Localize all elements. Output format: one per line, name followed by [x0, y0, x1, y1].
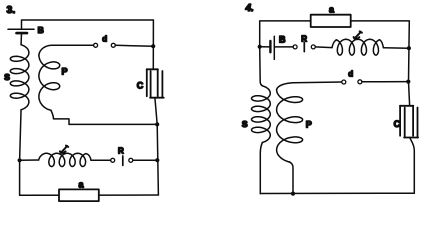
svg-text:4.: 4. — [245, 3, 254, 14]
svg-text:a: a — [329, 4, 335, 14]
wire: coil S bottom to bottom-left corner (fig.4) — [260, 143, 262, 194]
capacitor C2 top bar (fig.4) — [400, 105, 413, 107]
wire: top rail from battery top to top-right corner — [22, 20, 154, 29]
wire: top rail left segment (fig.4) — [260, 21, 311, 47]
inductor P1 (primary coil, fig.3) — [39, 55, 60, 110]
wire: switch R to right rail — [133, 159, 158, 161]
switch R left contact (fig.3) — [111, 158, 115, 162]
resistor box a (fig.4) — [311, 15, 351, 27]
wire: bottom rail (fig.4) — [260, 192, 414, 194]
wire: left rail junction to battery — [260, 46, 271, 48]
capacitor C2 top-left plate — [399, 106, 401, 136]
node: junction of battery branch and left rail — [258, 45, 262, 49]
svg-text:d: d — [102, 34, 107, 43]
node: junction of P-bottom wire and right rail — [155, 122, 159, 126]
capacitor C1 bottom-left plate — [150, 71, 152, 98]
wire: bottom rail (fig.3) — [20, 194, 159, 196]
svg-text:P: P — [62, 67, 68, 77]
label L script (fig.3) — [60, 146, 68, 153]
inductor S1 (secondary coil, fig.3) — [10, 45, 29, 110]
svg-text:S: S — [242, 119, 248, 129]
node: junction of L branch and right rail (fig.4) — [407, 46, 411, 50]
inductor L2 (fig.4) — [332, 39, 383, 55]
wire: switch d left lead — [52, 44, 94, 46]
wire: coil S bottom to bottom-left corner (left rail) — [20, 110, 21, 196]
inductor L1 (fig.3) — [39, 153, 91, 166]
wire: switch d line from P top curve (fig.4) — [293, 81, 342, 84]
switch R blade (fig.4) — [303, 42, 305, 51]
svg-text:R: R — [118, 147, 124, 156]
capacitor C1 top bar — [147, 68, 158, 70]
wire: capacitor C1 to lower right rail — [155, 98, 157, 125]
svg-text:C: C — [137, 80, 144, 90]
switch R blade (fig.3) — [122, 156, 124, 165]
wire: capacitor C2 to bottom-right corner (fig.4) — [410, 138, 415, 194]
wire: right rail lower — [157, 124, 158, 195]
wire: switch d to right rail (fig.4) — [362, 81, 408, 83]
resistor box a (fig.3) — [59, 189, 99, 201]
svg-text:S: S — [4, 72, 10, 82]
label L script (fig.4) — [354, 31, 362, 38]
node: junction of P bottom and bottom rail (fig.4) — [291, 192, 295, 196]
node: junction of L-R branch and right rail — [155, 158, 159, 162]
wire: left rail to inductor L — [20, 159, 39, 161]
switch R right contact (fig.3) — [129, 158, 133, 162]
wire: switch d right lead to right rail — [115, 44, 153, 47]
battery B1 short plate — [17, 32, 28, 35]
switch d right contact (fig.4) — [358, 80, 362, 84]
capacitor C1 top-right plate — [157, 69, 159, 96]
battery B2 long plate — [273, 36, 275, 59]
switch d right contact (fig.3) — [111, 43, 115, 47]
switch d left contact (fig.3) — [94, 43, 98, 47]
capacitor C2 top-right plate — [412, 106, 414, 136]
svg-text:P: P — [306, 120, 312, 130]
svg-text:C: C — [394, 119, 401, 129]
svg-text:3.: 3. — [7, 4, 16, 16]
wire: top rail right segment to top-right corner (fig.4) — [351, 21, 410, 105]
switch d left contact (fig.4) — [342, 80, 346, 84]
inductor S2 (secondary coil, fig.4) — [252, 86, 271, 143]
switch R right contact (fig.4) — [311, 45, 315, 49]
capacitor C2 bottom-right plate — [417, 108, 419, 138]
capacitor C1 top-left plate — [146, 69, 148, 96]
svg-text:d: d — [348, 69, 353, 78]
node: junction of L-R branch and left rail — [18, 158, 22, 162]
switch R left contact (fig.4) — [293, 45, 297, 49]
wire: right rail upper (top corner to capacitor) — [152, 20, 154, 69]
wire: coil P bottom step to right rail — [51, 110, 157, 124]
capacitor C1 bottom-right plate — [161, 71, 163, 98]
wire: switch d feed from top of coil P (fig.4) — [277, 83, 293, 90]
wire: switch d feed from top of coil P — [39, 45, 52, 55]
battery B1 long plate — [8, 28, 34, 30]
wire: switch R to inductor L (fig.4) — [315, 46, 332, 49]
wire: battery to switch R (fig.4) — [274, 46, 293, 48]
capacitor C2 bottom-left plate — [404, 108, 406, 138]
svg-text:a: a — [79, 180, 85, 190]
svg-text:B: B — [279, 34, 286, 44]
wire: left rail to coil S top (fig.4) — [260, 47, 263, 86]
capacitor C1 bottom bar — [150, 97, 164, 99]
capacitor C2 bottom bar (fig.4) — [404, 137, 418, 139]
inductor P2 (primary coil, fig.4) — [277, 90, 303, 163]
node: junction of d branch and right rail (fig.4) — [406, 80, 410, 84]
wire: coil P bottom to bottom rail (fig.4) — [290, 162, 293, 194]
node: junction of d lead and right rail — [151, 44, 155, 48]
svg-text:R: R — [301, 34, 307, 43]
wire: battery negative to top of coil S — [20, 33, 22, 45]
wire: inductor L to right rail (fig.4) — [383, 47, 409, 49]
battery B2 short plate — [269, 41, 271, 52]
svg-text:B: B — [38, 25, 44, 35]
wire: inductor L to switch R — [91, 159, 111, 161]
